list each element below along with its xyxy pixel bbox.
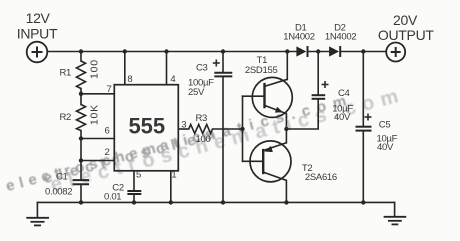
wire top rail from input to D1 (48, 51, 297, 53)
wire R1 bottom to pin7 node (80, 89, 82, 94)
wire C1 bottom to ground rail (80, 185, 82, 203)
wire C3 bottom to ground rail (222, 77, 224, 203)
svg-text:2SA616: 2SA616 (305, 172, 337, 183)
wire T1 base lead (243, 95, 265, 97)
capacitor C5 (356, 127, 372, 131)
node R1 top rail junction (79, 49, 83, 53)
svg-text:2SD155: 2SD155 (245, 65, 278, 76)
node pin1 ground junction (169, 200, 173, 204)
svg-text:OUTPUT: OUTPUT (378, 27, 435, 43)
node C3 ground junction (221, 200, 225, 204)
svg-text:1N4002: 1N4002 (283, 31, 314, 42)
svg-text:0.01: 0.01 (104, 192, 121, 203)
node pin4 rail junction (164, 49, 168, 53)
svg-text:C5: C5 (379, 120, 391, 131)
svg-text:100: 100 (196, 134, 211, 145)
resistor R2 (77, 105, 86, 131)
wire ground rail (37, 201, 394, 203)
wire right ground stub (394, 202, 396, 216)
node C1 ground junction (79, 200, 83, 204)
node C3 rail junction (221, 49, 225, 53)
node pin6 junction (79, 136, 83, 140)
wire pin4 to top rail (166, 52, 168, 85)
diode D1 (296, 46, 307, 57)
resistor R1 (77, 61, 86, 89)
ground right (384, 217, 407, 225)
wire base bus T1 to T2 (242, 96, 244, 161)
capacitor C3 polarity plus (213, 60, 220, 67)
wire pin8 to top rail (124, 52, 126, 85)
wire R2 bottom to pin6 node (80, 131, 82, 139)
wire pin3 to R3 (178, 128, 188, 130)
svg-text:555: 555 (128, 114, 165, 139)
svg-text:7: 7 (107, 84, 112, 95)
transistor Q1 T1 NPN (252, 77, 292, 117)
node pin2 junction (79, 158, 83, 162)
svg-text:40V: 40V (377, 142, 394, 153)
svg-text:0.0082: 0.0082 (45, 186, 72, 197)
svg-text:2: 2 (105, 147, 110, 158)
svg-text:8: 8 (127, 74, 132, 85)
wire pin1 to ground rail (170, 171, 172, 203)
node T2 collector ground junction (284, 200, 288, 204)
wire C2 bottom to ground rail (133, 194, 135, 202)
wire pin2 (81, 160, 114, 162)
svg-text:INPUT: INPUT (17, 26, 58, 42)
terminal output plus (391, 47, 401, 57)
IC U1 555 box (114, 85, 178, 171)
svg-text:10K: 10K (88, 104, 100, 125)
wire R1 top stub (80, 52, 82, 62)
node pin8 rail junction (123, 49, 127, 53)
node emitter junction (284, 127, 288, 131)
wire pin2 node down to C1 (80, 161, 82, 180)
svg-text:3: 3 (181, 120, 186, 131)
node C2 ground junction (132, 200, 136, 204)
svg-text:C4: C4 (338, 88, 350, 99)
wire emitter bus T1 to T2 (285, 114, 287, 143)
ground left (26, 218, 49, 226)
svg-text:R3: R3 (196, 113, 208, 124)
terminal output (386, 43, 405, 62)
wire C3 top (222, 52, 224, 73)
svg-text:R2: R2 (60, 112, 72, 123)
capacitor C3 (214, 73, 232, 77)
svg-text:C3: C3 (196, 63, 208, 74)
capacitor C2 (127, 191, 141, 194)
terminal input (27, 42, 48, 63)
wire C5 bottom to ground rail (362, 131, 364, 203)
wire emitter node to C4 (286, 99, 318, 129)
svg-text:6: 6 (105, 126, 110, 137)
capacitor C1 (73, 180, 89, 184)
svg-text:C1: C1 (56, 172, 68, 183)
svg-text:R1: R1 (60, 68, 72, 79)
wire D2 cathode to output terminal (340, 51, 386, 53)
capacitor C4 (312, 95, 326, 99)
resistor R3 (189, 125, 213, 134)
wire T1 collector to top rail (286, 52, 288, 80)
wire T2 collector to ground rail (285, 180, 287, 202)
wire D1 cathode to D2 anode (308, 51, 330, 53)
svg-text:5: 5 (136, 169, 141, 180)
wire pin7 (81, 93, 114, 95)
svg-text:12V: 12V (26, 10, 51, 26)
capacitor C4 polarity plus (322, 81, 329, 88)
wire R2 top stub (80, 94, 82, 105)
wire left ground stub (36, 202, 38, 217)
wire pin6 (81, 138, 114, 140)
node C5 output junction (361, 49, 365, 53)
svg-text:4: 4 (170, 74, 175, 85)
svg-text:100: 100 (89, 59, 101, 79)
capacitor C5 polarity plus (365, 114, 372, 121)
svg-text:25V: 25V (188, 87, 205, 98)
wire T2 base lead (243, 160, 264, 162)
node base junction (240, 127, 244, 131)
wire C4 top to rail (317, 52, 319, 95)
svg-text:1: 1 (171, 169, 176, 180)
svg-text:40V: 40V (334, 112, 351, 123)
svg-text:1N4002: 1N4002 (325, 31, 356, 42)
wire pin6 node to pin2 node (80, 139, 82, 161)
wire C5 top to output wire (362, 52, 364, 127)
node T1 collector rail junction (285, 49, 289, 53)
wire pin5 down to C2 (133, 171, 135, 191)
node pin7 junction (79, 92, 83, 96)
svg-text:20V: 20V (393, 12, 418, 28)
wire R3 to base node (213, 128, 243, 130)
diode D2 (329, 46, 340, 57)
node C4 rail junction (316, 49, 320, 53)
terminal input plus (32, 47, 43, 58)
node C5 ground junction (361, 200, 365, 204)
transistor Q2 T2 PNP (250, 141, 291, 182)
